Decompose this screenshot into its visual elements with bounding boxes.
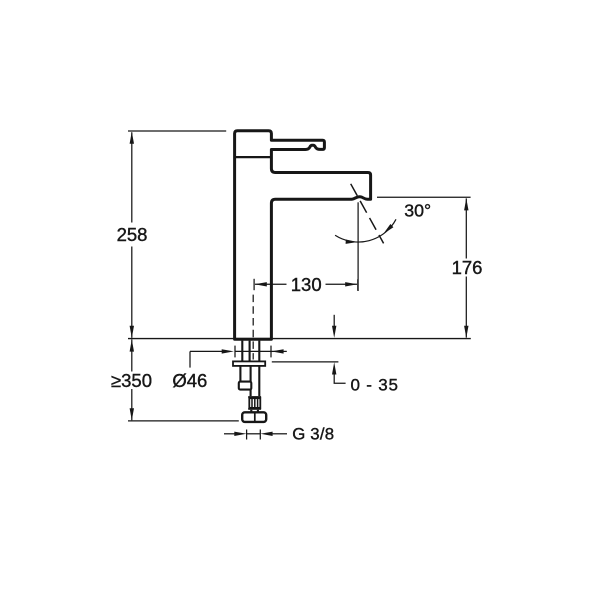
dim 0-35 top arrow: [333, 315, 335, 326]
dim diameter 46 leader: [190, 351, 223, 367]
cap joint line: [235, 156, 272, 158]
neck: [251, 410, 258, 413]
svg-text:≥350: ≥350: [111, 370, 152, 391]
supply tube left: [240, 366, 259, 396]
deck line: [128, 338, 471, 340]
dim 0-35 bottom arrow and elbow: [334, 374, 345, 384]
flange escutcheon: [233, 361, 265, 366]
svg-text:0 - 35: 0 - 35: [351, 376, 399, 395]
svg-text:130: 130: [291, 274, 322, 295]
shank stud lines under deck: [242, 341, 259, 362]
hex nut G3/8: [242, 412, 266, 422]
dim 176 line: [465, 198, 467, 337]
bottom reference line: [128, 420, 239, 422]
swivel arc: [335, 219, 396, 242]
arc arrow at dashed line: [383, 224, 393, 234]
dim >=350 line: [131, 339, 133, 420]
arc arrow at vertical line: [346, 240, 358, 244]
dim 130: [254, 279, 358, 291]
svg-text:30°: 30°: [404, 201, 431, 221]
svg-text:258: 258: [117, 224, 148, 245]
center dashed line: [252, 295, 254, 360]
svg-text:G 3/8: G 3/8: [292, 425, 334, 444]
svg-text:Ø46: Ø46: [172, 370, 207, 391]
dim 258 extension line top: [128, 130, 226, 132]
connector box: [239, 382, 252, 390]
faucet outline: [235, 131, 371, 340]
30 deg dashed swivel line: [351, 184, 384, 244]
ribbed thread section: [249, 398, 260, 408]
svg-text:176: 176: [452, 257, 483, 278]
flange top extension line: [272, 361, 339, 363]
dim diameter 46 ticks: [235, 346, 287, 358]
collet bottom cap: [248, 408, 261, 410]
dim 258 line: [131, 132, 133, 337]
collet top cap: [248, 396, 261, 398]
outlet vertical reference line: [357, 202, 359, 291]
dim G3/8: [224, 430, 287, 440]
dim 176 extension line: [377, 196, 471, 198]
